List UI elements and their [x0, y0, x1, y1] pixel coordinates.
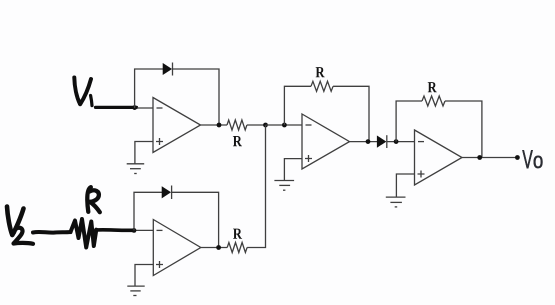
diode D1 (U1 feedback) — [163, 63, 173, 76]
wire U4 feedback loop — [134, 192, 219, 247]
label R (handwritten) — [87, 187, 100, 212]
ground (U4) — [127, 286, 144, 295]
wire U4 output — [201, 247, 227, 249]
resistor R (U3 feedback) — [422, 96, 445, 106]
wire U1 output — [201, 124, 228, 126]
wire handwritten R to U4 inverting input — [96, 228, 133, 232]
diode D2 (U4 feedback) — [162, 186, 172, 200]
wire U4 output to node A — [247, 125, 265, 248]
wire U3 non-inverting input to ground — [396, 174, 414, 197]
ground (U3) — [386, 197, 406, 207]
wire U1 feedback loop — [135, 69, 219, 125]
label R (U4 output resistor) — [233, 229, 242, 239]
op-amp U4 — [153, 220, 201, 276]
wire U4 non-inverting input to ground — [135, 265, 153, 286]
node V1 input junction — [132, 105, 137, 110]
wire R to node A — [247, 124, 266, 126]
label V1 (handwritten) — [74, 78, 92, 106]
label Vo — [522, 150, 542, 168]
op-amp U1 — [153, 98, 201, 153]
node U1 output junction — [217, 123, 222, 128]
wire D3 to U3 inverting input — [387, 141, 415, 143]
label R (U1 output resistor) — [233, 136, 242, 146]
wire U2 output — [350, 141, 378, 143]
node Vo terminal — [515, 155, 520, 160]
wire node A to U2 inverting input — [266, 124, 303, 126]
resistor R (U1 output) — [227, 120, 247, 130]
op-amp U2 — [302, 114, 350, 169]
ground (U2) — [274, 181, 294, 191]
resistor R (handwritten, V2 input) — [71, 219, 97, 248]
label R (U2 feedback resistor) — [316, 67, 325, 77]
ground (U1) — [127, 164, 145, 174]
wire U1 non-inverting input to ground — [135, 142, 153, 164]
node A (summing node) — [263, 123, 268, 128]
node U3 inverting input junction — [394, 139, 399, 144]
wire V2 input (handwritten) — [33, 230, 71, 235]
resistor R (U2 feedback) — [311, 81, 333, 91]
diode D3 (U2 output to U3) — [377, 135, 387, 148]
node U4 output junction — [216, 245, 221, 250]
wire V2 to U4 inverting input — [134, 229, 153, 231]
label R (U3 feedback resistor) — [428, 82, 437, 92]
wire V1 to U1 inverting input — [135, 107, 153, 109]
node U2 output junction — [366, 139, 371, 144]
label V2 (handwritten) — [7, 207, 33, 244]
node V2 input junction — [132, 228, 137, 233]
wire U3 feedback loop — [396, 101, 482, 158]
wire U2 feedback loop — [284, 86, 369, 141]
wire V1 input (handwritten) — [96, 106, 137, 109]
wire U2 non-inverting input to ground — [284, 159, 302, 181]
resistor R (U4 output) — [227, 243, 247, 253]
op-amp U3 — [415, 130, 463, 185]
node U2 feedback tap — [282, 123, 287, 128]
wire U3 output to Vo — [462, 157, 517, 159]
node U3 output junction — [477, 155, 482, 160]
